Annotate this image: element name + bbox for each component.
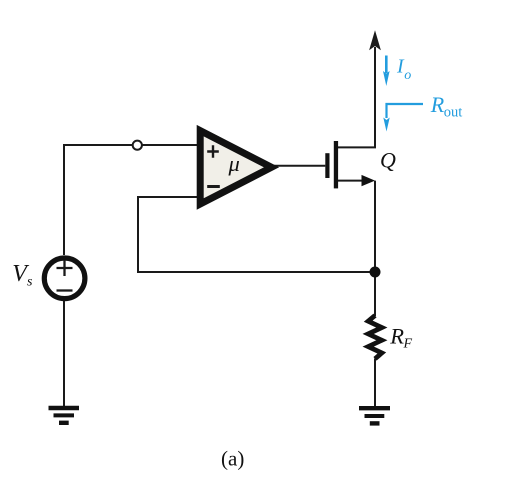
wire: source down through junction to resistor: [374, 181, 376, 316]
wire: op-amp output to MOSFET gate: [273, 165, 325, 167]
output current arrowhead (top): [370, 32, 380, 49]
svg-text:s: s: [27, 275, 33, 290]
wire: feedback from inverting input to junction: [138, 197, 375, 272]
svg-text:F: F: [403, 337, 413, 352]
voltage source Vs: [44, 258, 85, 299]
wire: resistor bottom to ground: [374, 359, 376, 407]
ground (right, under RF): [359, 408, 390, 423]
resistor RF: [368, 316, 382, 359]
svg-text:(a): (a): [221, 447, 244, 471]
ground (left, under Vs): [49, 408, 80, 423]
label RF: [389, 324, 412, 352]
label Rout (cyan pointer): [383, 92, 462, 132]
label Vs: [12, 261, 33, 290]
svg-text:Q: Q: [380, 147, 396, 172]
svg-text:μ: μ: [228, 151, 240, 176]
svg-text:out: out: [444, 104, 463, 120]
wire: Vs bottom to ground: [63, 301, 65, 406]
transistor Q (MOSFET): [325, 141, 375, 188]
svg-text:R: R: [430, 92, 445, 117]
op-amp U1: [200, 131, 271, 204]
label Io (cyan arrow): [383, 56, 411, 87]
wire: Vs top to noninverting input: [64, 145, 203, 255]
node: junction dot: [370, 267, 381, 278]
svg-text:o: o: [404, 68, 411, 83]
node: open circle on input wire: [133, 141, 142, 150]
svg-text:R: R: [389, 324, 404, 349]
wire: drain up to output arrow: [338, 47, 375, 147]
